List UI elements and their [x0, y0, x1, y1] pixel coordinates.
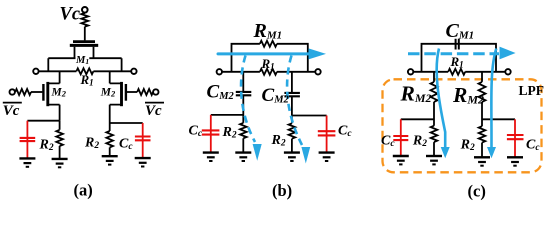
ground under R2 left (b): [235, 151, 251, 153]
ground under R2 right (b): [284, 151, 300, 153]
resistor R2 right (a): [106, 131, 113, 147]
node input (b): [217, 69, 222, 74]
ground under R2 left (a): [52, 158, 68, 160]
ground under Cc right (b): [319, 151, 335, 153]
svg-text:Vc: Vc: [60, 5, 81, 25]
wire M1 to rail (a): [48, 58, 121, 71]
svg-text:Cc: Cc: [381, 133, 395, 149]
svg-text:M1: M1: [75, 55, 89, 66]
resistor RM2 left (c): [431, 82, 438, 102]
transistor M1 (a): [73, 40, 95, 43]
capacitor Cc red left (c): [393, 119, 408, 155]
wire RM1 branch (b): [232, 44, 308, 72]
resistor R2 left (a): [56, 130, 63, 146]
svg-text:Vc: Vc: [145, 103, 162, 119]
wire left branch (c): [433, 72, 435, 126]
arrow forward path solid (b): [218, 48, 326, 59]
overline Vc left (a): [3, 102, 22, 104]
ground under Cc left (b): [203, 151, 219, 153]
svg-text:Vc: Vc: [3, 103, 20, 119]
wire rail (b): [222, 71, 315, 73]
capacitor CM2 right (b): [284, 93, 300, 96]
svg-text:RM2: RM2: [452, 83, 484, 107]
resistor gate bias right (a): [137, 89, 153, 95]
ground under R2 right (a): [102, 155, 118, 157]
capacitor Cc red right (a): [135, 123, 151, 158]
resistor R1 (a): [76, 68, 93, 74]
capacitor CM1 (c): [456, 39, 459, 50]
svg-text:CM2: CM2: [207, 82, 235, 103]
ground under R2 left (c): [426, 155, 442, 157]
ground under R2 right (c): [474, 156, 490, 158]
svg-text:M2: M2: [51, 87, 67, 99]
svg-text:RM1: RM1: [253, 20, 283, 42]
wire R2 right to ground (b): [291, 139, 293, 153]
wire R2 right to ground (c): [481, 143, 483, 158]
wire rail (c): [413, 71, 505, 73]
node input (c): [408, 69, 413, 74]
svg-text:(c): (c): [468, 182, 486, 201]
wire gate right (a): [127, 91, 137, 93]
ground under Cc right (c): [507, 156, 523, 158]
resistor RM2 right (c): [479, 82, 486, 102]
leakage path arrow left dashed (b): [241, 56, 262, 161]
ground under Cc left (c): [393, 155, 409, 157]
node Vc-bar terminal left (a): [10, 89, 15, 94]
resistor R1 (c): [448, 69, 465, 75]
wire right branch (c): [481, 72, 483, 126]
resistor R2 left (b): [240, 123, 247, 138]
wire gate M1 (a): [84, 27, 86, 41]
resistor R1 (b): [260, 69, 277, 75]
node output (c): [505, 69, 510, 74]
leakage path arrow left solid (c): [437, 49, 450, 159]
wire R2 right to ground (a): [109, 147, 111, 156]
svg-text:R1: R1: [261, 56, 275, 72]
transistor M2 right (a): [125, 84, 127, 101]
svg-text:(a): (a): [74, 181, 93, 200]
wire junction right (b): [292, 115, 327, 117]
wire R2 left to ground (a): [59, 146, 61, 159]
svg-text:Cc: Cc: [119, 137, 133, 153]
svg-text:Cc: Cc: [189, 124, 203, 140]
node Vc-bar terminal right (a): [153, 89, 158, 94]
wire right branch (b): [291, 72, 293, 124]
svg-text:M2: M2: [100, 87, 116, 99]
wire junction right (c): [482, 118, 515, 120]
capacitor Cc red right (c): [507, 119, 524, 157]
svg-text:RM2: RM2: [400, 81, 432, 105]
ground under Cc right (a): [135, 157, 151, 159]
svg-text:Cc: Cc: [526, 137, 540, 153]
arrow forward path dashed (c): [408, 47, 516, 60]
resistor R2 right (b): [289, 123, 296, 138]
wire source junction right (a): [110, 123, 143, 131]
node output (b): [315, 69, 320, 74]
resistor RM1 (b): [260, 41, 277, 47]
label M1 (a): [76, 55, 90, 63]
capacitor Cc red right (b): [318, 116, 336, 153]
wire left branch (b): [242, 72, 244, 123]
wire junction left (c): [401, 118, 434, 120]
leakage path arrow right solid (c): [487, 49, 496, 159]
resistor gate bias top (a): [81, 13, 88, 27]
wire rail (a): [39, 70, 131, 72]
svg-text:R1: R1: [450, 54, 464, 70]
leakage path arrow right dashed (b): [287, 56, 310, 164]
svg-text:CM2: CM2: [262, 85, 290, 106]
resistor gate bias left (a): [15, 89, 31, 95]
wire gate left (a): [31, 91, 42, 93]
ground under C left (a): [19, 157, 35, 159]
wire junction left (b): [211, 114, 244, 116]
node input left (a): [33, 69, 38, 74]
capacitor Cc red left (b): [202, 115, 220, 152]
capacitor C red left (a): [20, 121, 36, 158]
resistor R2 left (c): [431, 126, 438, 142]
node output right (a): [131, 69, 136, 74]
svg-text:R2: R2: [460, 137, 475, 153]
svg-text:LPF: LPF: [519, 83, 545, 98]
capacitor CM2 left (b): [236, 92, 252, 95]
overline Vc right (a): [145, 102, 164, 104]
LPF box (c): [383, 79, 542, 172]
svg-text:R2: R2: [84, 136, 99, 152]
wire source junction left (a): [27, 121, 59, 130]
transistor M2 left (a): [42, 84, 44, 101]
svg-text:CM1: CM1: [446, 20, 475, 42]
svg-text:R2: R2: [222, 125, 237, 141]
wire R2 left to ground (c): [433, 142, 435, 156]
svg-text:R2: R2: [39, 137, 54, 153]
svg-text:Cc: Cc: [338, 123, 352, 139]
svg-text:R2: R2: [412, 133, 427, 149]
wire CM1 branch (c): [422, 44, 497, 72]
resistor R2 right (c): [479, 126, 486, 142]
svg-text:R2: R2: [271, 133, 286, 149]
svg-text:(b): (b): [272, 181, 292, 200]
node Vc terminal (a): [82, 7, 88, 13]
wire R2 left to ground (b): [242, 138, 244, 152]
